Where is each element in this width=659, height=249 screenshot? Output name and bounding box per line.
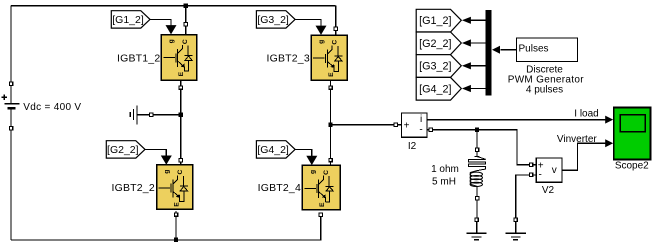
- svg-text:v: v: [552, 165, 557, 176]
- svg-text:Vinverter: Vinverter: [557, 134, 598, 145]
- svg-text:[G3_2]: [G3_2]: [257, 14, 289, 26]
- svg-text:[G1_2]: [G1_2]: [112, 14, 144, 26]
- svg-text:V2: V2: [542, 185, 555, 196]
- svg-text:[G4_2]: [G4_2]: [257, 144, 289, 156]
- svg-text:[G2_2]: [G2_2]: [419, 38, 451, 50]
- svg-text:[G1_2]: [G1_2]: [419, 15, 451, 27]
- svg-text:Vdc = 400 V: Vdc = 400 V: [23, 102, 81, 113]
- svg-text:Pulses: Pulses: [519, 43, 549, 54]
- svg-text:IGBT1_2: IGBT1_2: [117, 53, 160, 65]
- svg-text:IGBT2_3: IGBT2_3: [266, 53, 309, 65]
- svg-text:I2: I2: [408, 141, 417, 152]
- svg-text:-: -: [419, 124, 422, 135]
- svg-text:Scope2: Scope2: [615, 160, 649, 171]
- svg-text:+: +: [404, 120, 410, 131]
- svg-text:[G2_2]: [G2_2]: [107, 144, 139, 156]
- svg-text:IGBT2_2: IGBT2_2: [111, 182, 154, 194]
- svg-text:-: -: [539, 170, 542, 181]
- svg-text:i: i: [420, 114, 422, 125]
- svg-text:I load: I load: [574, 109, 598, 120]
- svg-text:[G3_2]: [G3_2]: [419, 61, 451, 73]
- svg-text:5 mH: 5 mH: [432, 177, 456, 188]
- svg-text:4 pulses: 4 pulses: [526, 84, 563, 95]
- svg-text:IGBT2_4: IGBT2_4: [258, 182, 301, 194]
- svg-text:1 ohm: 1 ohm: [431, 164, 459, 175]
- svg-text:[G4_2]: [G4_2]: [419, 83, 451, 95]
